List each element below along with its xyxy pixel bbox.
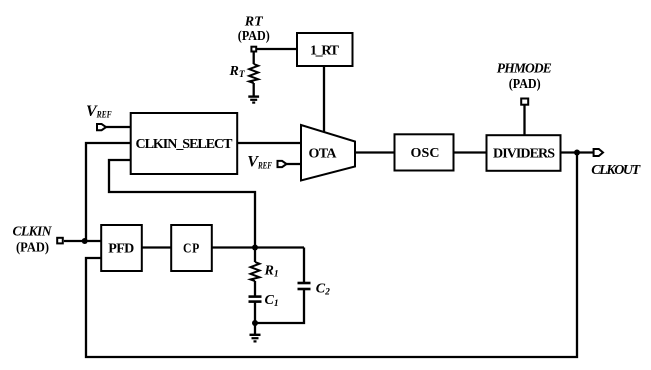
svg-text:RT: RT (229, 64, 246, 80)
svg-text:CLKOUT: CLKOUT (591, 163, 641, 178)
svg-text:OTA: OTA (309, 147, 338, 162)
svg-text:1_RT: 1_RT (310, 44, 340, 59)
svg-text:VREF: VREF (86, 103, 112, 120)
svg-text:CLKIN: CLKIN (13, 223, 53, 238)
svg-text:(PAD): (PAD) (238, 29, 270, 44)
svg-text:C2: C2 (316, 281, 330, 297)
svg-text:(PAD): (PAD) (16, 240, 49, 255)
svg-text:PFD: PFD (108, 242, 134, 257)
svg-text:C1: C1 (265, 293, 279, 309)
svg-text:VREF: VREF (247, 154, 272, 172)
svg-text:R1: R1 (264, 263, 279, 279)
svg-text:CLKIN_SELECT: CLKIN_SELECT (136, 137, 234, 152)
svg-text:PHMODE: PHMODE (497, 61, 552, 76)
svg-text:RT: RT (244, 14, 264, 29)
svg-text:(PAD): (PAD) (509, 77, 541, 92)
svg-text:OSC: OSC (411, 146, 440, 161)
svg-text:DIVIDERS: DIVIDERS (493, 147, 555, 162)
svg-text:CP: CP (183, 241, 200, 256)
